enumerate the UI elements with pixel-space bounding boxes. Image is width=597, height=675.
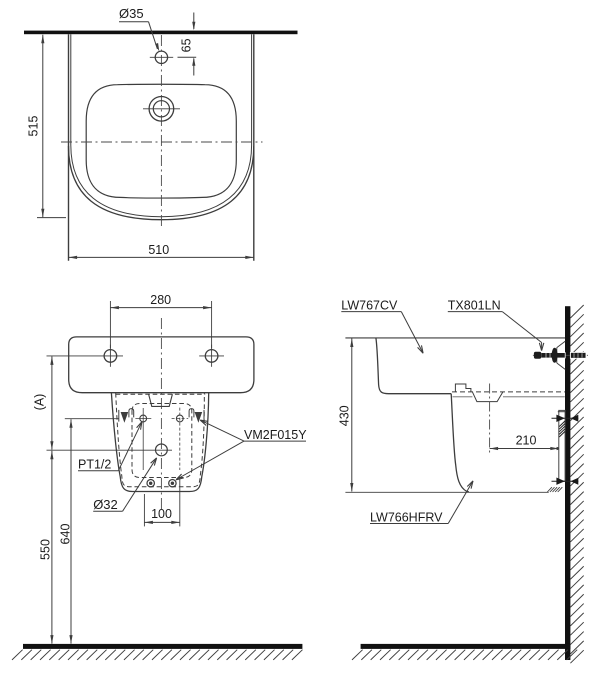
pedestal hidden edge dashed (front view) bbox=[116, 393, 206, 487]
basin top surface line (side view) bbox=[345, 337, 565, 339]
basin back panel outline (front view) bbox=[69, 337, 254, 393]
label TX801LN with leader bbox=[448, 299, 544, 351]
svg-text:Ø35: Ø35 bbox=[119, 6, 144, 21]
label Ø35 with leader bbox=[119, 6, 159, 52]
dimension 210 arrow at pipe bbox=[550, 447, 559, 450]
bottom extension line (side view) bbox=[345, 491, 548, 493]
wall section line (side view) bbox=[565, 306, 570, 660]
label PT1/2 with leader bbox=[78, 422, 142, 472]
dimension 210 bbox=[490, 433, 565, 450]
dimension 640 bbox=[59, 419, 120, 644]
vertical centerline (front view) bbox=[160, 318, 162, 511]
faucet centerline (side view) bbox=[533, 354, 588, 356]
fixing bolt left (front view) bbox=[147, 480, 154, 487]
svg-text:VM2F015Y: VM2F015Y bbox=[244, 428, 307, 442]
svg-text:280: 280 bbox=[150, 293, 171, 307]
label LW767CV with leader bbox=[341, 299, 423, 354]
vertical centerline (plan) bbox=[160, 35, 162, 229]
floor line (side view) bbox=[361, 644, 571, 649]
faucet hole Ø35 (plan) bbox=[150, 51, 173, 63]
left wall hook bracket bbox=[119, 409, 134, 423]
hidden bottom edge dashed (side view) bbox=[452, 391, 565, 393]
svg-text:430: 430 bbox=[337, 405, 351, 426]
inner access hidden outline dashed (front view) bbox=[132, 404, 192, 478]
hanger notch (front view) bbox=[149, 394, 173, 406]
faucet TX801LN body (side view) bbox=[534, 341, 586, 369]
rear hanger tab (side view) bbox=[455, 384, 471, 392]
svg-text:510: 510 bbox=[148, 243, 169, 257]
basin inner rim line (plan) bbox=[71, 34, 252, 217]
second supply hole (front view) bbox=[172, 408, 189, 470]
threaded section hatch (side view) bbox=[559, 421, 565, 437]
trap cover outline (side view) bbox=[451, 394, 469, 492]
wall hatching (side view) bbox=[570, 305, 583, 663]
dimension (A) bbox=[32, 356, 53, 449]
lower pipe clamp anchor bbox=[552, 478, 579, 485]
basin body outline (side view) bbox=[376, 338, 451, 394]
svg-text:550: 550 bbox=[39, 539, 53, 560]
upper pipe clamp anchor bbox=[552, 415, 579, 422]
svg-text:515: 515 bbox=[26, 116, 40, 137]
dimension 280 (hole spacing) bbox=[110, 293, 211, 348]
overflow tray recess (side view) bbox=[472, 392, 503, 402]
floor hatching (side view) bbox=[352, 650, 577, 660]
water supply hole PT1/2 (front view) bbox=[135, 408, 151, 470]
dimension 100 (bolt spacing) bbox=[144, 478, 179, 526]
svg-text:65: 65 bbox=[180, 38, 194, 52]
floor hatching (front view) bbox=[12, 650, 303, 660]
dimension 515 (plan height) bbox=[26, 35, 66, 218]
svg-text:640: 640 bbox=[59, 524, 73, 545]
svg-text:210: 210 bbox=[516, 433, 537, 447]
svg-text:LW767CV: LW767CV bbox=[341, 299, 398, 313]
label VM2F015Y with leaders bbox=[176, 420, 307, 480]
svg-text:(A): (A) bbox=[32, 394, 46, 411]
drain centerline (side view) bbox=[489, 384, 491, 453]
drain pipe on wall (side view) bbox=[558, 410, 566, 481]
svg-text:100: 100 bbox=[151, 507, 172, 521]
svg-text:TX801LN: TX801LN bbox=[448, 299, 501, 313]
floor line (front view) bbox=[23, 644, 302, 649]
drain hole Ø32 (front view) bbox=[47, 444, 173, 456]
dimension 430 bbox=[337, 339, 353, 492]
pedestal cover outline (front view) bbox=[111, 393, 208, 492]
svg-text:PT1/2: PT1/2 bbox=[78, 458, 111, 472]
inner bowl outline (plan) bbox=[86, 84, 236, 198]
wall section line (plan view) bbox=[24, 31, 298, 35]
tap/overflow hole (plan) bbox=[143, 97, 180, 122]
left mounting hole (front view) bbox=[47, 345, 124, 367]
fixing bolt right (front view) bbox=[169, 480, 176, 487]
svg-text:Ø32: Ø32 bbox=[93, 497, 118, 512]
horizontal centerline (plan) bbox=[61, 141, 263, 143]
dimension 510 (plan width) bbox=[69, 243, 254, 259]
dimension 65 arrows and text bbox=[178, 13, 197, 76]
cut hatch at wall (side view) bbox=[547, 487, 562, 492]
dimension 550 bbox=[39, 451, 54, 644]
hidden lower edge (side view) bbox=[453, 396, 565, 398]
right wall hook bracket bbox=[189, 409, 204, 423]
svg-text:LW766HFRV: LW766HFRV bbox=[370, 511, 443, 525]
right mounting hole (front view) bbox=[199, 345, 224, 367]
label LW766HFRV with leader bbox=[370, 481, 473, 525]
basin outer outline (plan) bbox=[69, 34, 254, 261]
label Ø32 with leader bbox=[93, 458, 156, 512]
